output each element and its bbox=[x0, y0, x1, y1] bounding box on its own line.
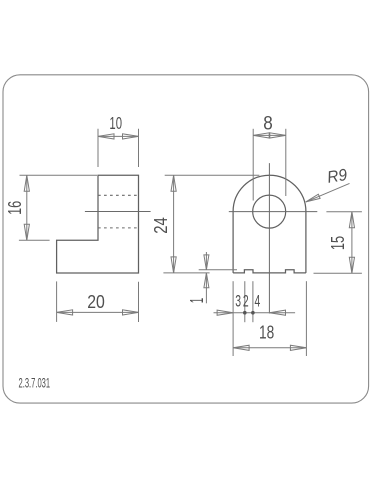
svg-text:8: 8 bbox=[263, 113, 273, 134]
svg-text:4: 4 bbox=[255, 292, 261, 311]
hole circle bbox=[253, 195, 286, 228]
radius leader R9 bbox=[306, 183, 350, 202]
centerline left view bbox=[85, 211, 151, 213]
horizontal centerline bbox=[229, 211, 317, 213]
dimension chain 3 2 4 (notch position) bbox=[214, 281, 296, 356]
dot terminator at 244.8 bbox=[243, 311, 247, 315]
dimension 16 (left height, left view) bbox=[19, 175, 97, 240]
svg-text:20: 20 bbox=[87, 292, 105, 312]
hidden line upper (hole silhouette) bbox=[98, 194, 139, 196]
svg-text:18: 18 bbox=[259, 323, 274, 343]
svg-text:R9: R9 bbox=[326, 166, 349, 187]
hidden line lower (hole silhouette) bbox=[98, 227, 139, 229]
dimension 24 (total height) bbox=[163, 175, 259, 273]
left view outline bbox=[57, 175, 139, 273]
base left edge bbox=[232, 212, 234, 273]
svg-text:2: 2 bbox=[243, 292, 249, 311]
base bottom edge with notches bbox=[233, 270, 306, 273]
dimension 18 (base width) bbox=[233, 281, 306, 356]
dimension 15 (base/center height) bbox=[314, 212, 362, 274]
sheet border bbox=[3, 75, 369, 403]
dimension 8 (hole diameter) bbox=[253, 129, 286, 201]
dimension 10 (top width, left view) bbox=[98, 129, 139, 167]
base right edge bbox=[305, 212, 307, 273]
svg-text:16: 16 bbox=[5, 201, 25, 215]
dimension 1 (notch depth) bbox=[199, 252, 237, 303]
svg-text:3: 3 bbox=[235, 292, 241, 311]
svg-text:1: 1 bbox=[187, 298, 207, 304]
vertical centerline bbox=[268, 163, 270, 313]
svg-text:24: 24 bbox=[150, 217, 171, 234]
dimension 20 (bottom width, left view) bbox=[57, 281, 139, 322]
svg-text:2.3.7.031: 2.3.7.031 bbox=[19, 374, 51, 390]
svg-text:10: 10 bbox=[109, 113, 122, 133]
dot terminator at 252.9 bbox=[251, 311, 255, 315]
svg-text:15: 15 bbox=[327, 236, 348, 250]
dome arc R9 bbox=[233, 175, 306, 211]
